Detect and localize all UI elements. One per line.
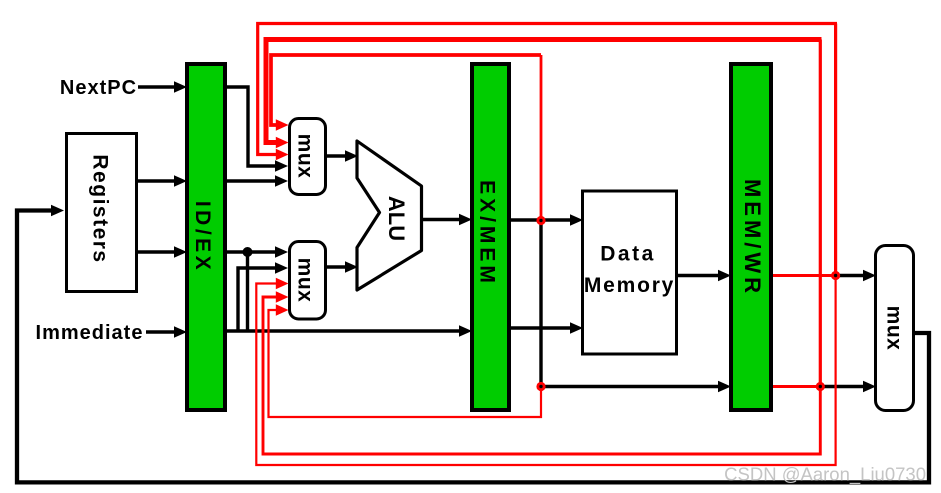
arrowheads black — [51, 81, 876, 392]
arrow upper into mux3 — [863, 270, 876, 282]
arrowheads red into mux2 — [276, 278, 289, 289]
wire writeback loop (mux out, right/bottom/left border, into Registers) — [17, 211, 929, 483]
wire Data Memory out to MEM/WR — [678, 274, 720, 277]
wire ALU result bypass down — [539, 221, 542, 387]
forwarding red: MEM/WR upper tap to top mux1 input3 — [258, 24, 837, 155]
svg-text:Memory: Memory — [584, 274, 675, 297]
wire Registers out A to ID/EX — [138, 179, 176, 182]
node red tap bypass — [536, 382, 545, 391]
arrow bypass into MEM/WR — [718, 381, 731, 393]
svg-text:mux: mux — [883, 306, 906, 351]
forwarding red: MEM/WR lower tap to bottom mux2 input4 — [263, 297, 820, 454]
forwarding red: MEM/WR upper tap to bottom mux2 input3 — [256, 276, 835, 466]
wire mux1 to ALU — [327, 154, 347, 157]
wire NextPC to ID/EX — [138, 85, 176, 88]
forwarding red: MEM/WR lower tap to top mux1 input2 — [266, 40, 822, 143]
forwarding red: EX/MEM tap to top mux1 input1 — [271, 55, 541, 125]
arrowheads red into mux1 — [276, 119, 289, 315]
mux U1 (upper ALU input) — [290, 119, 326, 195]
forwarding red: MEM/WR lower tap riser — [819, 40, 822, 387]
Registers box — [67, 134, 137, 292]
wire mux2 to ALU — [327, 265, 347, 268]
svg-text:MEM/WR: MEM/WR — [740, 179, 765, 297]
svg-text:CSDN @Aaron_Liu0730: CSDN @Aaron_Liu0730 — [724, 464, 926, 486]
wire MEM/WR lower out red segment — [773, 385, 820, 388]
ALU — [357, 141, 422, 290]
wire MEM/WR upper out to mux3 (black part) — [833, 274, 865, 277]
svg-text:Immediate: Immediate — [36, 322, 144, 344]
arrow NextPC into ID/EX — [174, 81, 187, 93]
arrow A into mux1 — [275, 175, 288, 187]
wire MEM/WR upper out red segment — [773, 274, 836, 277]
wire B tap down to store path — [246, 252, 249, 331]
forwarding red: EX/MEM tap riser — [540, 55, 543, 221]
arrow store path into EX/MEM — [459, 325, 472, 337]
wire bypass to MEM/WR — [541, 385, 720, 388]
mux U2 (lower ALU input) — [290, 242, 326, 320]
wire EX/MEM to Data Memory store data — [511, 326, 572, 329]
arrow NextPC into mux1 — [275, 160, 288, 172]
forwarding red: MEM/WR upper tap riser — [834, 24, 837, 276]
node red tap EX/MEM — [536, 216, 545, 225]
pipeline register EX/MEM — [472, 64, 509, 410]
pipeline register ID/EX — [187, 64, 225, 410]
node B junction — [243, 247, 253, 257]
svg-text:EX/MEM: EX/MEM — [476, 180, 499, 287]
node red tap MEM/WR upper — [831, 271, 840, 280]
arrow mux1 into ALU — [345, 150, 358, 162]
arrow B into mux2 — [275, 246, 288, 258]
arrow into Registers — [51, 205, 64, 217]
arrow into Data Memory data — [570, 322, 583, 334]
arrow ALU into EX/MEM — [459, 214, 472, 226]
arrow mux2 into ALU — [345, 261, 358, 273]
wire immediate up to mux2 — [238, 268, 277, 331]
arrow lower into mux3 — [863, 381, 876, 393]
wire immediate/store path ID/EX to EX/MEM — [227, 329, 460, 332]
svg-text:ID/EX: ID/EX — [191, 201, 214, 273]
arrow B into ID/EX — [174, 246, 187, 258]
wire Registers out B to ID/EX — [138, 250, 176, 253]
node red tap MEM/WR lower — [816, 382, 825, 391]
forwarding red: EX/MEM tap to bottom mux2 input5 — [269, 310, 542, 417]
svg-text:ALU: ALU — [384, 196, 409, 241]
arrow Immediate into ID/EX — [174, 326, 187, 338]
arrow A into ID/EX — [174, 175, 187, 187]
svg-text:NextPC: NextPC — [60, 77, 137, 99]
svg-text:mux: mux — [294, 258, 317, 303]
svg-text:mux: mux — [294, 134, 317, 179]
svg-text:Data: Data — [600, 243, 656, 266]
svg-text:Registers: Registers — [89, 154, 112, 263]
Data Memory box — [583, 191, 677, 354]
wire B value ID/EX to mux2 — [227, 250, 277, 253]
arrow dm out into MEM/WR — [718, 270, 731, 282]
wire ALU out to EX/MEM — [421, 218, 460, 221]
pipeline register MEM/WR — [731, 64, 771, 410]
arrow into Data Memory addr — [570, 214, 583, 226]
wire EX/MEM to Data Memory address — [511, 218, 572, 221]
arrow imm into mux2 — [275, 262, 288, 274]
wire MEM/WR lower out to mux3 (black part) — [817, 385, 865, 388]
wire NextPC pass ID/EX to mux1 — [227, 87, 277, 166]
wire Immediate to ID/EX — [146, 330, 176, 333]
mux U3 (writeback select) — [876, 246, 914, 411]
wire A value ID/EX to mux1 — [227, 179, 277, 182]
